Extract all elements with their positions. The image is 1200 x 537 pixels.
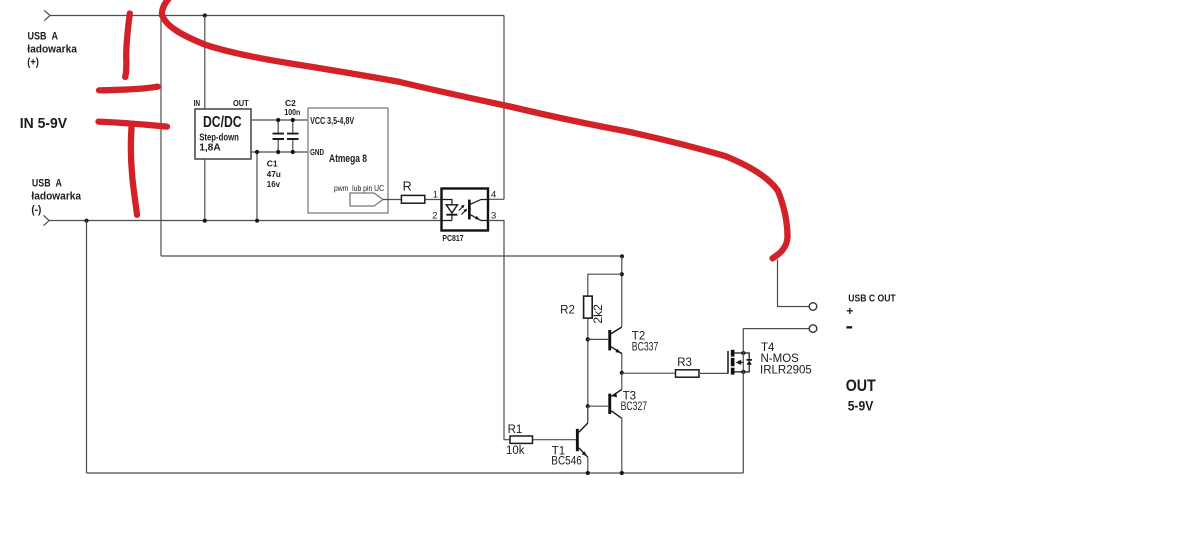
svg-text:BC546: BC546 bbox=[551, 456, 582, 468]
transistor T1 BC546 NPN bbox=[551, 423, 588, 468]
node junction gnd line x257 bbox=[255, 150, 259, 154]
red marker long curve to output bbox=[162, 0, 788, 258]
wire DC/DC GND pin down bbox=[204, 159, 206, 221]
DC/DC converter U-DC box bbox=[194, 98, 251, 159]
terminal circle - out bbox=[809, 325, 817, 333]
label OUT 5-9V bbox=[846, 377, 876, 414]
wire GND line to Atmega GND bbox=[251, 151, 308, 153]
svg-text:ładowarka: ładowarka bbox=[31, 191, 82, 203]
wire right vertical to pin4 bbox=[488, 16, 504, 200]
capacitor C1 47u bbox=[267, 118, 284, 189]
microcontroller U2 Atmega 8 box bbox=[308, 108, 388, 213]
PC817 light arrows bbox=[459, 205, 467, 215]
svg-text:USB A: USB A bbox=[32, 177, 62, 189]
resistor R bbox=[401, 179, 424, 203]
wire T2 base bbox=[588, 338, 609, 340]
svg-text:16v: 16v bbox=[267, 179, 280, 189]
wire branch to R2 top bbox=[588, 274, 622, 296]
PC817 LED diode bbox=[442, 200, 458, 221]
svg-text:2: 2 bbox=[432, 211, 437, 222]
wire R2 bottom vertical bbox=[587, 318, 589, 422]
svg-text:OUT: OUT bbox=[233, 98, 249, 108]
resistor R1 10k bbox=[506, 424, 533, 457]
transistor T2 BC337 NPN bbox=[608, 327, 658, 354]
resistor R3 bbox=[676, 357, 700, 377]
svg-text:BC327: BC327 bbox=[621, 401, 648, 413]
wire emitters to R3 bbox=[622, 372, 676, 374]
wire R to PC817 pin1 bbox=[425, 199, 442, 201]
wire gnd drop x257 bbox=[256, 152, 258, 221]
wire top +rail bbox=[50, 15, 504, 17]
wire R1 to T1 base bbox=[533, 439, 576, 441]
svg-text:10k: 10k bbox=[506, 445, 525, 457]
svg-text:PC817: PC817 bbox=[442, 233, 463, 243]
input terminal (-) chevron bbox=[44, 215, 50, 225]
svg-text:ładowarka: ładowarka bbox=[27, 44, 77, 56]
svg-text:Atmega 8: Atmega 8 bbox=[329, 153, 367, 165]
svg-text:IRLR2905: IRLR2905 bbox=[760, 365, 812, 377]
node junction R2 branch bbox=[620, 272, 624, 276]
wire T1 emitter vertical bbox=[587, 457, 589, 473]
node junction ground rail x86 bbox=[84, 219, 88, 223]
wire tag to R bbox=[383, 199, 401, 201]
svg-text:GND: GND bbox=[310, 147, 324, 157]
node A junction top rail x161 bbox=[159, 13, 163, 17]
svg-text:(-): (-) bbox=[31, 204, 41, 216]
svg-text:+: + bbox=[846, 304, 853, 318]
svg-text:USB C OUT: USB C OUT bbox=[848, 293, 896, 305]
label USB A ladowarka (-) bbox=[31, 177, 82, 216]
PC817 phototransistor bbox=[468, 200, 488, 221]
svg-text:R2: R2 bbox=[560, 305, 575, 317]
svg-text:(+): (+) bbox=[27, 56, 39, 68]
resistor R2 2k2 bbox=[560, 296, 605, 323]
node junction T2 base bbox=[586, 337, 590, 341]
wire left vertical down to bottom rail bbox=[86, 221, 88, 474]
mosfet T4 IRLR2905 bbox=[728, 342, 812, 377]
wire x622 vertical to T2 collector bbox=[621, 256, 623, 327]
svg-text:OUT: OUT bbox=[846, 377, 876, 395]
wire OUT line to Atmega VCC bbox=[251, 119, 308, 121]
node B junction top rail x205 bbox=[203, 13, 207, 17]
red marker stroke vertical top-left bbox=[125, 14, 130, 78]
svg-text:BC337: BC337 bbox=[632, 341, 659, 353]
capacitor C2 100n bbox=[284, 98, 300, 154]
svg-text:R: R bbox=[403, 179, 412, 193]
label USB C OUT bbox=[846, 293, 896, 329]
svg-text:5-9V: 5-9V bbox=[848, 397, 874, 413]
svg-text:1: 1 bbox=[433, 189, 438, 200]
node junction bottom rail x622 bbox=[620, 471, 624, 475]
node junction outer bottom x622 bbox=[620, 254, 624, 258]
wire pin3 to R1 bbox=[488, 221, 510, 440]
svg-text:USB A: USB A bbox=[28, 31, 59, 43]
svg-text:R1: R1 bbox=[508, 424, 523, 436]
svg-text:IN 5-9V: IN 5-9V bbox=[20, 116, 68, 132]
svg-text:C1: C1 bbox=[267, 158, 278, 168]
wire ground rail bbox=[49, 220, 442, 222]
node junction emitters / R3 bbox=[620, 371, 624, 375]
node junction T4 drain bbox=[741, 351, 745, 355]
pwm output tag bbox=[350, 193, 383, 206]
label USB A ladowarka (+) bbox=[27, 31, 77, 69]
svg-text:4: 4 bbox=[491, 189, 496, 200]
svg-text:R3: R3 bbox=[677, 357, 692, 369]
node junction ground rail x205 bbox=[203, 219, 207, 223]
node junction T4 source bbox=[741, 370, 745, 374]
svg-text:IN: IN bbox=[194, 99, 201, 108]
svg-text:2k2: 2k2 bbox=[591, 304, 605, 324]
optocoupler U1 PC817 box bbox=[442, 189, 489, 231]
terminal circle + out bbox=[809, 303, 817, 311]
wire bottom ground rail bbox=[87, 472, 744, 474]
svg-text:N-MOS: N-MOS bbox=[761, 353, 800, 365]
wire R3 to T4 gate bbox=[699, 372, 728, 374]
wire T3 collector vertical bbox=[621, 418, 623, 473]
node junction ground rail x257 bbox=[255, 219, 259, 223]
red marker stroke horizontal lower bbox=[99, 122, 168, 127]
wire DC/DC IN vertical bbox=[204, 16, 206, 110]
node junction T3 base / T1 collector bbox=[586, 404, 590, 408]
svg-text:47u: 47u bbox=[267, 169, 281, 179]
wire T1 collector vertical bbox=[587, 406, 589, 423]
svg-text:VCC 3,5-4,8V: VCC 3,5-4,8V bbox=[310, 116, 354, 127]
red marker stroke horizontal upper bbox=[99, 87, 158, 91]
node junction bottom rail x588 bbox=[586, 471, 590, 475]
wire outer left vertical bbox=[160, 16, 162, 257]
wire T3 base bbox=[588, 405, 609, 407]
svg-text:pwm lub pin UC: pwm lub pin UC bbox=[334, 183, 384, 193]
wire outer bottom horizontal bbox=[161, 255, 622, 257]
wire T3 emitter vertical bbox=[621, 373, 623, 390]
wire T4 drain up / minus-out bbox=[743, 329, 809, 473]
red marker stroke vertical lower-left bbox=[131, 126, 137, 215]
input terminal (+) chevron bbox=[44, 10, 50, 20]
transistor T3 BC327 PNP bbox=[608, 389, 647, 418]
svg-text:100n: 100n bbox=[284, 107, 300, 117]
wire T2 emitter vertical bbox=[621, 354, 623, 373]
wire plus-out from red end bbox=[778, 260, 810, 307]
svg-text:1,8A: 1,8A bbox=[199, 141, 221, 153]
svg-text:DC/DC: DC/DC bbox=[203, 114, 242, 131]
